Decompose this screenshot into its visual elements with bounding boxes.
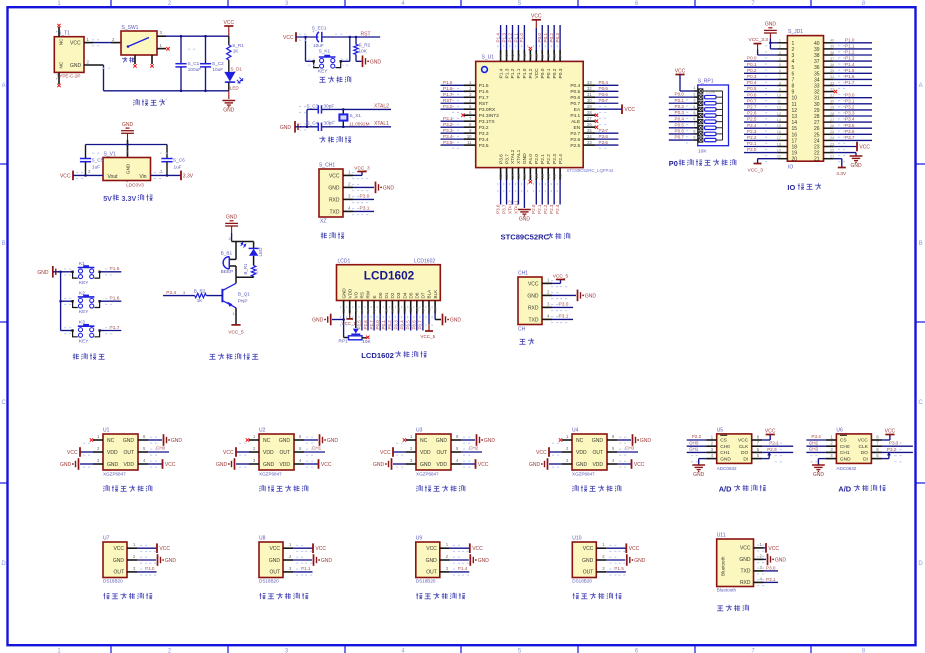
svg-text:VCC: VCC <box>768 546 779 552</box>
svg-text:11: 11 <box>403 308 407 312</box>
svg-text:29: 29 <box>587 104 592 109</box>
svg-text:LCD1602: LCD1602 <box>364 269 415 283</box>
pot right terminal nc <box>362 337 367 339</box>
svg-text:P0.6: P0.6 <box>675 129 685 134</box>
svg-text:29: 29 <box>814 108 820 114</box>
JD1 right pin 40 <box>824 42 834 44</box>
svg-text:P0.2: P0.2 <box>675 104 685 109</box>
svg-text:P4.3INT2: P4.3INT2 <box>479 113 500 119</box>
JD1 left pin 3 <box>777 54 787 56</box>
svg-text:P1.7: P1.7 <box>845 80 855 85</box>
svg-text:P3.5: P3.5 <box>479 143 489 149</box>
svg-text:P2.4: P2.4 <box>558 154 564 164</box>
svg-text:P1.7: P1.7 <box>479 95 489 101</box>
svg-text:RS: RS <box>360 292 365 298</box>
svg-text:21: 21 <box>814 157 820 163</box>
svg-text:VCC: VCC <box>321 462 332 468</box>
svg-text:10: 10 <box>777 94 781 98</box>
JD1 right pin 39 <box>824 48 834 50</box>
top pin 43 P1.3 <box>506 50 508 61</box>
svg-text:XTAL1: XTAL1 <box>374 121 389 127</box>
LCD pin15 BLA VCC_5 <box>428 314 430 325</box>
JD1 left pin 8 <box>777 85 787 87</box>
left pin 8 P3.2 <box>464 126 476 128</box>
svg-text:1: 1 <box>792 41 795 47</box>
svg-text:P1.5: P1.5 <box>479 83 489 89</box>
svg-text:P2.1: P2.1 <box>537 204 542 214</box>
svg-text:GND: GND <box>223 107 235 113</box>
svg-text:U5: U5 <box>717 427 724 433</box>
svg-text:P3.1TX: P3.1TX <box>479 119 496 125</box>
GND power port <box>228 91 230 99</box>
svg-text:RST: RST <box>479 101 489 107</box>
svg-text:28: 28 <box>830 112 834 116</box>
svg-text:7: 7 <box>779 75 781 79</box>
svg-text:GND: GND <box>171 438 183 444</box>
pin4 VDD to VCC right <box>451 463 461 465</box>
svg-text:24: 24 <box>830 136 834 140</box>
svg-text:ADC0832: ADC0832 <box>836 466 856 471</box>
title 温度检测模块 <box>573 593 622 599</box>
svg-text:P2.2: P2.2 <box>546 154 552 164</box>
svg-text:LDO3V3: LDO3V3 <box>126 183 144 188</box>
reset circuit 复位电路 <box>283 26 381 83</box>
JD1 right pin 26 <box>824 127 834 129</box>
JD1 right pin 29 <box>824 109 834 111</box>
svg-text:VCC_5: VCC_5 <box>342 321 357 326</box>
pin5 OUT net CH0 <box>138 451 148 453</box>
pin3 CH1 <box>706 451 717 453</box>
svg-text:VO: VO <box>354 291 359 298</box>
svg-text:38: 38 <box>534 53 539 58</box>
svg-text:P3.2: P3.2 <box>443 122 453 127</box>
svg-text:2: 2 <box>779 45 781 49</box>
svg-text:4: 4 <box>360 309 364 311</box>
CS overline <box>720 434 727 436</box>
svg-text:GND: GND <box>328 185 340 191</box>
svg-text:S_JD1: S_JD1 <box>788 29 803 35</box>
svg-text:9: 9 <box>792 90 795 96</box>
svg-text:15: 15 <box>792 126 798 132</box>
crystal S_X1 11.0592M <box>342 109 344 114</box>
svg-text:39: 39 <box>814 47 820 53</box>
svg-text:3.3V: 3.3V <box>122 194 137 203</box>
svg-text:P2.6: P2.6 <box>747 111 757 116</box>
svg-text:GND: GND <box>383 185 395 191</box>
capacitor S_C2 10uF <box>205 36 207 64</box>
right pin 24 P2.6 <box>583 138 595 140</box>
svg-text:OUT: OUT <box>592 450 603 456</box>
svg-text:GND: GND <box>420 462 432 468</box>
svg-text:OUT: OUT <box>123 450 134 456</box>
svg-text:24: 24 <box>814 138 820 144</box>
connector S_T1 TYPE-C-2P <box>54 37 84 73</box>
title 复位电路 <box>319 76 351 82</box>
svg-text:P1.2: P1.2 <box>845 50 855 55</box>
svg-text:GND: GND <box>126 163 131 174</box>
switch bottom stubs <box>134 55 136 64</box>
pressure module U4 XGZP6847 <box>529 428 651 492</box>
svg-text:10K: 10K <box>362 339 371 344</box>
svg-text:CH0: CH0 <box>156 445 166 450</box>
pin2 GND <box>127 559 137 561</box>
svg-text:RXD: RXD <box>528 305 539 311</box>
svg-text:P3.7: P3.7 <box>845 135 855 140</box>
top rail wire <box>86 144 168 146</box>
svg-text:CH1: CH1 <box>720 450 730 456</box>
svg-text:GND: GND <box>263 462 275 468</box>
svg-text:P0.7: P0.7 <box>675 135 685 140</box>
svg-text:EA: EA <box>574 107 581 113</box>
svg-text:VDD: VDD <box>592 462 603 468</box>
svg-text:P4.2: P4.2 <box>528 68 534 78</box>
svg-text:GND: GND <box>426 558 438 564</box>
pin2 VDD to VCC <box>249 451 259 453</box>
svg-text:16: 16 <box>522 173 527 178</box>
svg-text:33: 33 <box>587 80 592 85</box>
svg-text:30: 30 <box>587 98 592 103</box>
svg-text:C: C <box>918 400 923 406</box>
capacitor S_C3 30pF <box>318 105 321 113</box>
svg-text:S_D1: S_D1 <box>231 67 243 72</box>
svg-text:BLA: BLA <box>427 289 432 299</box>
svg-text:27: 27 <box>587 116 592 121</box>
pack resistor 4 net P0.2 <box>669 108 694 110</box>
JD1 right pin 38 <box>824 54 834 56</box>
svg-text:P0.6: P0.6 <box>570 95 580 101</box>
svg-text:15: 15 <box>428 307 432 311</box>
svg-text:6: 6 <box>779 69 781 73</box>
bottom pin 17 P4.0 <box>529 168 531 180</box>
pin6 GND right <box>294 439 304 441</box>
bottom pin 12 P3.6 <box>500 168 502 180</box>
svg-text:OUT: OUT <box>583 570 594 576</box>
svg-text:GND: GND <box>216 462 228 468</box>
svg-text:P2.5: P2.5 <box>570 143 580 149</box>
pin6 DO net P2.0 <box>752 451 763 453</box>
junction dots <box>180 35 183 38</box>
svg-text:39: 39 <box>528 53 533 58</box>
svg-text:A: A <box>2 83 6 89</box>
svg-text:S_C2: S_C2 <box>212 61 224 66</box>
svg-text:VCC: VCC <box>478 462 489 468</box>
svg-text:11: 11 <box>467 140 472 145</box>
svg-text:4: 4 <box>779 57 781 61</box>
svg-text:14: 14 <box>792 120 798 126</box>
JD1 left pin 6 <box>777 72 787 74</box>
bt pin1 VCC <box>754 547 764 549</box>
buzzer B_B1 BEEP <box>235 242 237 260</box>
svg-text:10: 10 <box>467 134 472 139</box>
svg-text:VCC: VCC <box>223 450 234 456</box>
svg-text:RXD: RXD <box>740 580 751 586</box>
pin4 VDD to VCC right <box>138 463 148 465</box>
svg-text:P0.4: P0.4 <box>747 80 757 85</box>
svg-text:B: B <box>919 241 923 247</box>
svg-text:VCC: VCC <box>528 281 539 287</box>
svg-text:GND: GND <box>720 456 731 462</box>
svg-text:VCC: VCC <box>159 546 170 552</box>
left pin 10 P3.4 <box>464 138 476 140</box>
svg-text:DI: DI <box>863 456 868 462</box>
svg-text:VCC: VCC <box>67 450 78 456</box>
svg-text:GND: GND <box>484 438 496 444</box>
svg-text:22: 22 <box>558 173 563 178</box>
JD1 left pin 18 <box>777 146 787 148</box>
capacitor S_EC1 10uF polarized <box>317 32 319 42</box>
svg-text:GND: GND <box>226 215 238 221</box>
svg-text:P1.3: P1.3 <box>845 56 855 61</box>
pin3 GND <box>249 463 259 465</box>
svg-text:19: 19 <box>540 173 545 178</box>
LCD pin1 GND wire <box>343 314 345 320</box>
svg-text:GND: GND <box>765 22 777 28</box>
svg-text:3: 3 <box>779 51 781 55</box>
pack resistor 3 net P0.1 <box>669 102 694 104</box>
potentiometer RP1 10K <box>355 314 357 329</box>
JD1 right pin 24 <box>824 139 834 141</box>
svg-text:22: 22 <box>830 148 834 152</box>
svg-text:P3.6: P3.6 <box>498 154 504 164</box>
svg-text:P0.5: P0.5 <box>675 122 685 127</box>
svg-text:P0.1: P0.1 <box>747 62 757 67</box>
pressure module U1 XGZP6847 <box>60 428 182 492</box>
svg-text:D4: D4 <box>402 292 407 298</box>
pack resistor 5 net P0.3 <box>669 115 694 117</box>
resistor B_R2 1K on base <box>206 295 222 297</box>
pin5 OUT net CH2 <box>451 451 461 453</box>
title 蓝牙模块 <box>717 605 749 611</box>
svg-text:GND: GND <box>582 558 594 564</box>
wire top node <box>232 241 236 243</box>
JD1 left pin 13 <box>777 115 787 117</box>
svg-text:RP1: RP1 <box>339 338 349 343</box>
wire net P1.6 <box>104 300 121 302</box>
svg-text:GND: GND <box>527 293 539 299</box>
bluetooth module U11 <box>717 533 787 612</box>
svg-text:S_C6: S_C6 <box>173 158 185 163</box>
svg-text:VDD: VDD <box>263 450 274 456</box>
button circuit 按键电路 <box>37 261 121 360</box>
right pin 28 P4.1 <box>583 114 595 116</box>
key S_K1 <box>305 37 307 61</box>
svg-text:DS18B20: DS18B20 <box>259 579 279 584</box>
JD1 left pin 10 <box>777 97 787 99</box>
title 串口 <box>519 338 534 344</box>
svg-text:CH1: CH1 <box>312 445 322 450</box>
svg-text:ADC0832: ADC0832 <box>717 466 737 471</box>
svg-text:7: 7 <box>379 309 383 311</box>
svg-text:ALE: ALE <box>571 119 580 125</box>
svg-text:26: 26 <box>587 122 592 127</box>
svg-text:12: 12 <box>792 108 798 114</box>
svg-text:VCC_3: VCC_3 <box>354 165 370 171</box>
svg-text:GND: GND <box>436 438 448 444</box>
bottom pin 20 P2.2 <box>547 168 549 180</box>
svg-text:GND: GND <box>634 558 646 564</box>
svg-text:20: 20 <box>546 173 551 178</box>
svg-text:30: 30 <box>814 102 820 108</box>
JD1 right pin 22 <box>824 152 834 154</box>
svg-text:3: 3 <box>354 309 358 311</box>
svg-text:14: 14 <box>777 118 781 122</box>
svg-text:27: 27 <box>814 120 820 126</box>
JD1 right pin 21 <box>824 158 834 160</box>
pin1 VCC <box>283 547 293 549</box>
svg-text:40: 40 <box>814 41 820 47</box>
svg-text:S_T1: S_T1 <box>58 31 70 37</box>
temperature module U9 DS18B20 <box>416 536 489 600</box>
svg-text:VCC: VCC <box>858 438 869 444</box>
svg-text:P1.4: P1.4 <box>458 566 468 571</box>
svg-text:P3.1: P3.1 <box>766 577 776 582</box>
svg-text:P0.7: P0.7 <box>570 101 580 107</box>
svg-text:26: 26 <box>814 126 820 132</box>
svg-text:12: 12 <box>409 307 413 311</box>
svg-text:D7: D7 <box>421 292 426 298</box>
pin6 GND right <box>451 439 461 441</box>
bt pin2 GND <box>754 558 764 560</box>
svg-text:P2.0: P2.0 <box>747 147 757 152</box>
pin1 NC <box>406 439 416 441</box>
pin3 GND <box>562 463 572 465</box>
svg-text:GND: GND <box>373 462 385 468</box>
svg-text:11: 11 <box>777 100 781 104</box>
svg-text:VCC: VCC <box>624 107 635 113</box>
resistor S_R1 1K <box>228 36 230 45</box>
svg-text:35: 35 <box>552 53 557 58</box>
pin1 VCC <box>440 547 450 549</box>
svg-text:OUT: OUT <box>436 450 447 456</box>
top pin 35 P0.2 <box>553 50 555 61</box>
svg-text:10K: 10K <box>359 49 368 54</box>
svg-text:NC: NC <box>576 438 584 444</box>
pin1 CS net P2.2 <box>706 439 717 441</box>
JD1 left pin 15 <box>777 127 787 129</box>
bt pin3 TXD net P3.0 <box>754 570 764 572</box>
svg-text:21: 21 <box>830 155 834 159</box>
svg-text:VCC_3: VCC_3 <box>748 168 764 174</box>
svg-text:31: 31 <box>814 96 820 102</box>
right pin 32 P0.5 <box>583 90 595 92</box>
svg-text:P0.4: P0.4 <box>599 80 609 85</box>
JD1 left pin 9 <box>777 91 787 93</box>
svg-text:U6: U6 <box>836 427 843 433</box>
svg-text:VCC: VCC <box>329 173 340 179</box>
svg-text:10K: 10K <box>698 149 707 155</box>
JD1 right pin 33 <box>824 85 834 87</box>
svg-text:GND: GND <box>122 122 134 128</box>
svg-text:9: 9 <box>779 87 781 91</box>
svg-text:XTAL2: XTAL2 <box>510 149 516 164</box>
gnd bus vertical <box>60 272 62 331</box>
right pin 23 P2.5 <box>583 144 595 146</box>
svg-text:14: 14 <box>421 307 425 311</box>
pin1 NC <box>93 439 103 441</box>
pin6 DO net P3.2 <box>871 451 882 453</box>
svg-text:P1.4: P1.4 <box>845 62 855 67</box>
JD1 right pin 37 <box>824 60 834 62</box>
svg-text:VDD: VDD <box>123 462 134 468</box>
temperature module U7 DS18B20 <box>103 536 176 600</box>
svg-text:B_R2: B_R2 <box>194 288 206 293</box>
top pin 36 P0.1 <box>547 50 549 61</box>
svg-text:24: 24 <box>587 134 592 139</box>
svg-text:41: 41 <box>516 53 521 58</box>
svg-text:TXD: TXD <box>529 317 539 323</box>
svg-text:VCC: VCC <box>380 450 391 456</box>
svg-text:39: 39 <box>830 45 834 49</box>
svg-text:KEY: KEY <box>79 280 89 286</box>
svg-text:A/D: A/D <box>838 485 851 494</box>
switch S_SW1 <box>121 31 157 55</box>
svg-text:25: 25 <box>814 132 820 138</box>
key K1 <box>61 271 73 273</box>
svg-text:38: 38 <box>814 53 820 59</box>
common bus inside pack <box>722 91 724 140</box>
svg-text:27: 27 <box>830 118 834 122</box>
svg-text:12: 12 <box>777 106 781 110</box>
svg-text:+: + <box>312 29 315 34</box>
wire gnd to pin1 and pin2 <box>770 42 777 44</box>
svg-text:U10: U10 <box>572 536 581 542</box>
left pin 3 P1.7 <box>464 96 476 98</box>
wire net P1.7 <box>104 330 121 332</box>
svg-text:U2: U2 <box>259 428 266 434</box>
svg-text:P1.3: P1.3 <box>501 33 506 43</box>
svg-text:OUT: OUT <box>113 570 124 576</box>
svg-text:TXD: TXD <box>330 209 340 215</box>
svg-text:6: 6 <box>792 71 795 77</box>
GND power port top <box>225 221 238 226</box>
MCU U1 STC89C52RC LQFP44 <box>441 14 636 242</box>
bottom pin 22 P2.4 <box>559 168 561 180</box>
title 下载口 <box>321 232 344 238</box>
svg-text:OUT: OUT <box>426 570 437 576</box>
svg-text:EN: EN <box>574 125 581 131</box>
left pin 5 P3.0RX <box>464 108 476 110</box>
svg-text:P1.6: P1.6 <box>479 89 489 95</box>
left pin 7 P3.1TX <box>464 120 476 122</box>
bottom pin 13 P3.7 <box>506 168 508 180</box>
top pin 37 P0.0 <box>541 50 543 61</box>
pin1 CS net P3.4 <box>826 439 837 441</box>
bottom rail wire <box>104 90 229 92</box>
svg-text:P2.1: P2.1 <box>540 154 546 164</box>
S_T1 top stub pin <box>58 27 60 37</box>
svg-text:P0: P0 <box>669 159 678 168</box>
svg-text:GND: GND <box>37 270 49 276</box>
right pin 29 EA <box>583 108 595 110</box>
left pin 6 P4.3INT2 <box>464 114 476 116</box>
svg-text:P0.7: P0.7 <box>747 98 757 103</box>
svg-text:GND: GND <box>519 216 531 222</box>
svg-text:P0.6: P0.6 <box>747 92 757 97</box>
svg-text:37: 37 <box>814 59 820 65</box>
GND power port <box>53 266 56 278</box>
svg-text:P0.0: P0.0 <box>675 92 685 97</box>
bottom pin 16 GND <box>523 168 525 180</box>
svg-text:29: 29 <box>830 106 834 110</box>
left pin 11 P3.5 <box>464 144 476 146</box>
VCC power port <box>224 26 233 36</box>
svg-text:12: 12 <box>498 173 503 178</box>
svg-text:P1.6: P1.6 <box>845 74 855 79</box>
svg-text:14: 14 <box>510 173 515 178</box>
svg-text:S_C4: S_C4 <box>307 121 319 126</box>
svg-text:P0.1: P0.1 <box>675 98 685 103</box>
JD1 left pin 16 <box>777 133 787 135</box>
